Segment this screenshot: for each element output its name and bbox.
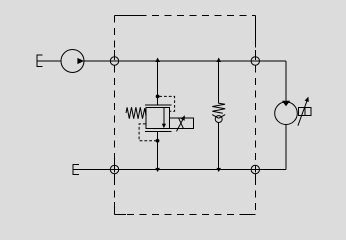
wire motor M1 return riser bbox=[285, 124, 287, 169]
tank symbol T1 (inlet reservoir) bbox=[37, 55, 42, 67]
relief valve RV bottom rail bbox=[145, 130, 171, 132]
junction arrow at relief branch top bbox=[155, 58, 160, 63]
junction arrow at check branch top bbox=[216, 58, 221, 63]
wire pump P1 to port IN bbox=[84, 60, 110, 62]
junction arrow at check branch bottom bbox=[216, 168, 221, 172]
wire top supply rail bbox=[110, 60, 286, 62]
wire tank T1 to pump P1 bbox=[37, 60, 61, 62]
relief valve RV pilot line (dashed, to spring chamber) bbox=[139, 124, 156, 141]
pump P1 circle bbox=[61, 50, 84, 73]
motor M1 variable arrow bbox=[298, 97, 309, 126]
wire check branch lower bbox=[218, 122, 220, 169]
junction dot below relief valve bbox=[156, 139, 160, 143]
enclosure dashed boundary bbox=[115, 16, 256, 215]
relief valve RV adjustment arrow bbox=[177, 115, 185, 131]
relief valve RV pilot line (dashed, from upstream tap) bbox=[159, 96, 174, 111]
relief valve RV top rail bbox=[145, 104, 171, 106]
wire right riser to motor M1 bbox=[285, 61, 287, 102]
port OUT (crossed circle, top right) bbox=[251, 57, 259, 65]
wire relief branch upper bbox=[157, 61, 159, 105]
junction dot pilot tap bbox=[156, 95, 160, 99]
port T2 (crossed circle, bottom right) bbox=[251, 165, 259, 173]
relief valve RV adjustment box inner diagonal bbox=[179, 118, 184, 128]
tank symbol T2 (return reservoir) bbox=[73, 165, 79, 175]
relief valve RV spring bbox=[126, 107, 146, 119]
motor M1 inlet triangle bbox=[282, 101, 290, 107]
check valve CV1 ball bbox=[215, 116, 222, 123]
wire bottom return rail bbox=[73, 169, 286, 171]
check valve CV1 seat bbox=[212, 115, 225, 119]
relief valve RV adjustment box bbox=[170, 118, 194, 129]
port T1 (crossed circle, bottom left) bbox=[110, 165, 118, 173]
wire check branch upper bbox=[218, 61, 220, 104]
motor M1 circle bbox=[275, 102, 298, 125]
relief valve RV flow arrow bbox=[162, 108, 166, 129]
wire relief branch lower bbox=[157, 131, 159, 169]
relief valve RV envelope bbox=[146, 108, 170, 129]
junction arrow at relief branch bottom bbox=[155, 168, 160, 172]
pump P1 outlet triangle bbox=[77, 58, 84, 64]
check valve CV1 spring bbox=[212, 103, 225, 113]
port IN (crossed circle, top left) bbox=[110, 57, 118, 65]
motor M1 drain box bbox=[299, 107, 311, 115]
